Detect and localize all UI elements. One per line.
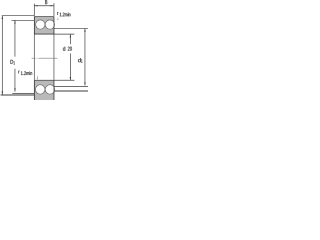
ball top-right: [45, 20, 54, 29]
d1 dimension line: [84, 29, 86, 86]
D1 arrow up: [14, 20, 15, 23]
d1 top extension line: [54, 28, 88, 30]
right face line: [53, 16, 55, 100]
d1 arrow down: [84, 82, 85, 85]
background: [0, 0, 88, 100]
label D1: [10, 60, 13, 64]
extra right extension line near bottom: [54, 90, 88, 92]
D1 top extension line: [11, 19, 34, 21]
OD top extension line: [2, 15, 35, 17]
B arrow left: [34, 5, 37, 6]
ball top-left: [36, 20, 45, 29]
B right extension line: [53, 3, 55, 16]
D1 arrow down: [14, 88, 15, 91]
ball bottom-right: [45, 85, 55, 95]
d arrow down: [70, 77, 71, 80]
r leader arrow bottom: [36, 76, 38, 79]
bearing outer+inner ring top half-section: [34, 17, 53, 35]
B arrow right: [51, 5, 54, 6]
d1 arrow up: [84, 29, 85, 32]
left face line: [33, 16, 35, 100]
d1 bottom extension line: [54, 86, 88, 88]
D arrow down: [2, 91, 3, 94]
label r 1.2min top-right: [57, 12, 58, 15]
ball bottom-left: [35, 85, 45, 95]
B left extension line: [33, 4, 35, 16]
label 20: [68, 47, 72, 51]
D1 dimension line upper: [14, 20, 16, 56]
axis centerline: [32, 57, 58, 59]
label d1: [78, 58, 81, 62]
label r 1.2min bottom-left: [18, 71, 19, 74]
D arrow up: [2, 16, 3, 19]
d dimension line upper: [69, 34, 71, 44]
label d (bore): [63, 47, 65, 51]
D1 bottom extension line: [12, 93, 34, 95]
d arrow up: [70, 34, 71, 37]
D1 dimension line lower: [14, 69, 16, 92]
D bottom extension line: [1, 94, 35, 96]
d dimension line lower: [69, 53, 71, 80]
B dimension line: [34, 5, 54, 7]
bore top line + d top extension: [34, 33, 74, 35]
d bottom extension line: [54, 79, 74, 81]
label B: [45, 0, 47, 4]
bearing bottom half-section (cut by image bottom): [34, 80, 53, 100]
r leader arrow top: [57, 18, 59, 20]
D dimension line: [1, 16, 3, 95]
